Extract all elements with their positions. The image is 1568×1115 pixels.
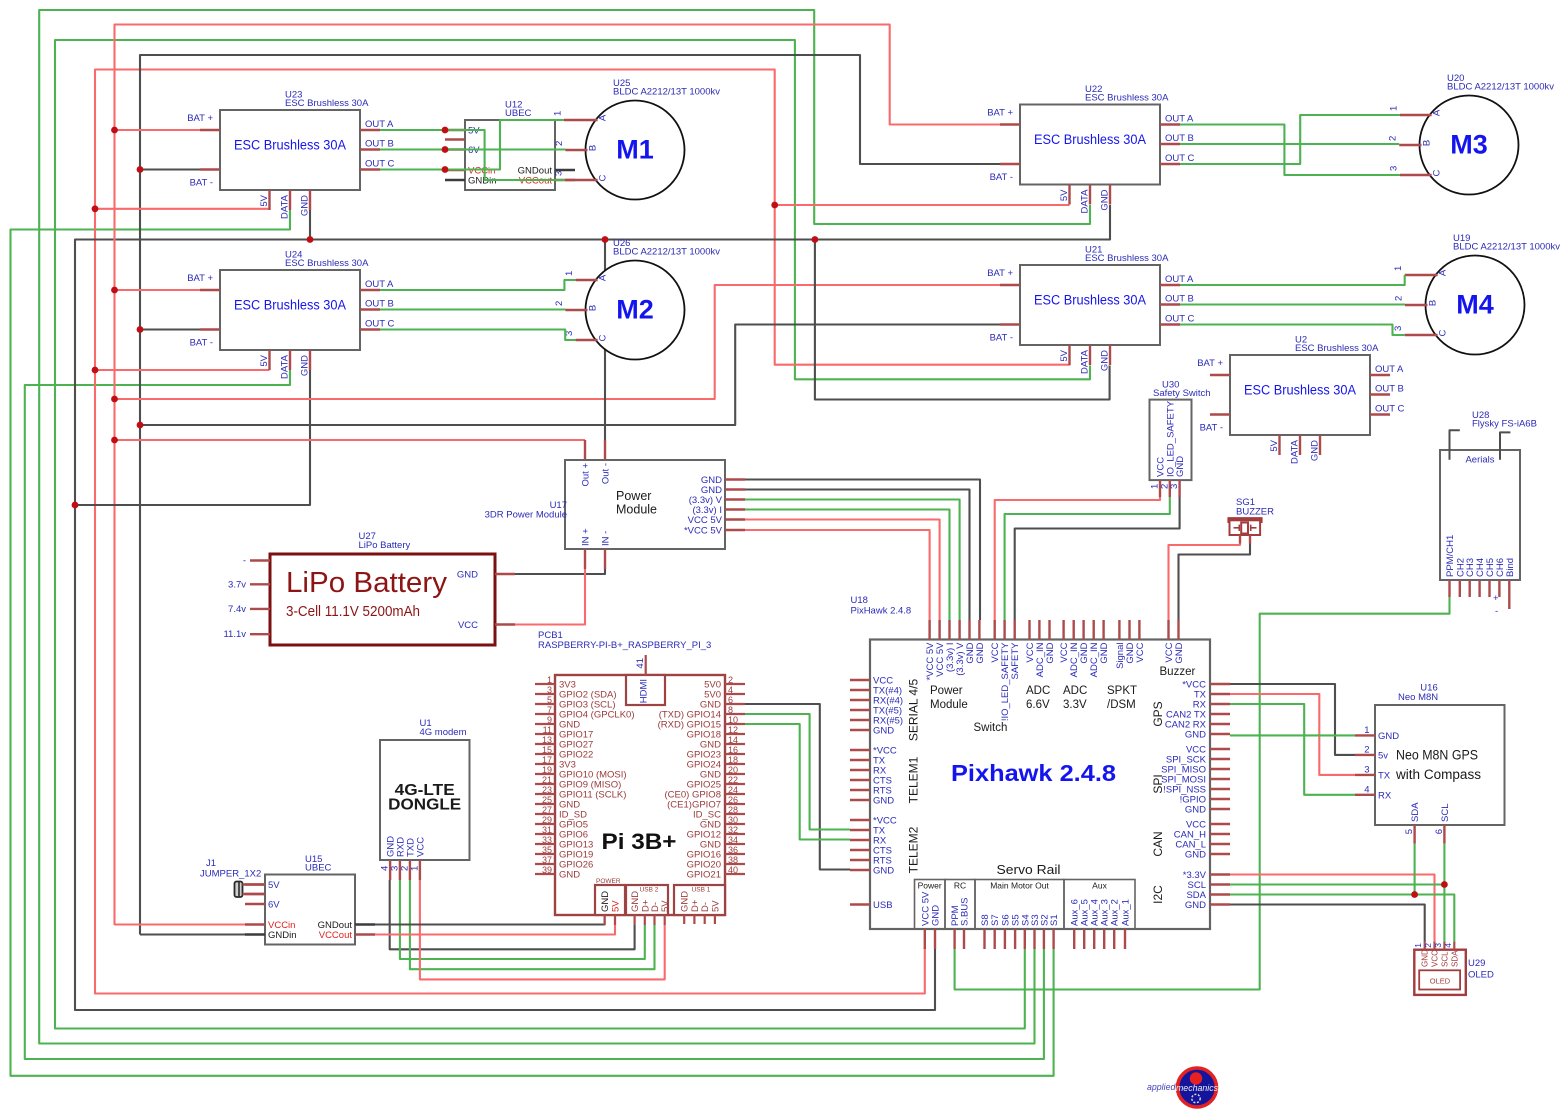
svg-text:BAT -: BAT - — [1200, 423, 1223, 434]
buzzer SG1 legs — [1239, 535, 1241, 544]
svg-text:5V: 5V — [1059, 349, 1070, 361]
U15 pin GNDin — [245, 933, 265, 935]
U18 servo rail pin S1 — [1052, 929, 1054, 949]
U18 top pin GND — [978, 620, 980, 640]
svg-text:SERIAL 4/5: SERIAL 4/5 — [907, 679, 921, 742]
U23 pin OUT B — [360, 148, 380, 150]
U18 top pin GND — [1082, 620, 1084, 640]
wire U27 VCC to U17 IN+ — [515, 569, 585, 625]
svg-text:A: A — [598, 274, 609, 281]
U18 SERIAL4/5 pin RX(#5) — [850, 719, 870, 721]
U2 pin OUT A — [1370, 374, 1390, 376]
U28 pin CH3 — [1468, 580, 1470, 597]
svg-text:1: 1 — [1413, 943, 1423, 948]
svg-text:23: 23 — [542, 785, 552, 795]
svg-text:ADC: ADC — [1063, 685, 1087, 697]
U15 pin VCCout — [355, 933, 375, 935]
junction U12 5V — [442, 127, 449, 134]
junction GND rail / Out- — [602, 236, 609, 243]
U18 SPI pin !GPIO — [1210, 798, 1230, 800]
wire U1 VCC to Pi USB2 5V — [420, 880, 665, 979]
U16 pin 6 (SCL) — [1443, 825, 1445, 844]
wire U1 TXD to Pi USB2 D- — [410, 880, 655, 969]
U22 pin OUT A — [1160, 123, 1180, 125]
U2 pin OUT C — [1370, 413, 1390, 415]
svg-text:OUT C: OUT C — [365, 159, 395, 170]
svg-text:OUT C: OUT C — [1375, 404, 1405, 415]
U28 aerial right — [1500, 432, 1510, 459]
U30 pin 1 (VCC) — [1159, 480, 1161, 497]
svg-text:5V: 5V — [259, 354, 270, 366]
U18 SERIAL4/5 pin TX(#5) — [850, 709, 870, 711]
U1 pin 4 (GND) — [389, 860, 391, 880]
svg-text:BUZZER: BUZZER — [1236, 507, 1274, 518]
PCB1 pin 9 (GND) — [535, 723, 555, 725]
U18 servo rail pin Aux_4 — [1093, 929, 1095, 949]
svg-text:GND: GND — [1100, 189, 1111, 210]
svg-text:GND: GND — [1378, 731, 1399, 742]
svg-text:+: + — [1493, 593, 1499, 604]
PCB1 pin 35 (GPIO19) — [535, 853, 555, 855]
U18 top pin ADC_IN — [1092, 620, 1094, 640]
svg-text:GND: GND — [1045, 642, 1056, 663]
J1 pin stubs — [243, 883, 266, 885]
svg-text:IN +: IN + — [581, 528, 592, 546]
svg-text:37: 37 — [542, 855, 552, 865]
svg-text:VCC 5V: VCC 5V — [688, 515, 723, 526]
svg-text:SCL: SCL — [1440, 804, 1451, 822]
PCB1 power connector — [595, 885, 625, 915]
U2 pin 5V — [1278, 435, 1280, 455]
U2 pin DATA — [1299, 435, 1301, 455]
svg-text:5V: 5V — [268, 880, 280, 891]
svg-text:15: 15 — [542, 745, 552, 755]
ESC U23 box — [220, 110, 360, 190]
wire U18 I2C SCL to OLED SCL / U16 SCL — [1230, 883, 1444, 885]
U28 pin CH4 — [1478, 580, 1480, 597]
svg-text:GND: GND — [873, 796, 894, 807]
U23 pin 5V — [268, 190, 270, 210]
UBEC U12 box — [465, 120, 555, 190]
power module U17 box — [565, 460, 725, 549]
U18 SERIAL4/5 pin RX(#4) — [850, 699, 870, 701]
raspberry pi PCB1 box — [555, 675, 725, 915]
U18 top pin VCC — [1167, 620, 1169, 640]
U18 TELEM1 pin RX — [850, 769, 870, 771]
junction BAT+ rail / Out+ — [111, 437, 118, 444]
junction U12 6V — [442, 146, 449, 153]
PCB1 pin 2 (5V0) — [725, 683, 745, 685]
motor U25 (M1) body — [586, 101, 685, 200]
PCB1 pin 30 (GND) — [725, 823, 745, 825]
svg-text:3: 3 — [547, 685, 552, 695]
U21 pin 5V — [1068, 345, 1070, 365]
U20 pin 3 (C) — [1400, 174, 1432, 176]
U18 servo rail pin GND — [934, 929, 936, 949]
svg-text:GND: GND — [300, 355, 311, 376]
wire Pixhawk SAFETY to U30 pin3 — [1015, 497, 1180, 620]
U20 pin 1 (A) — [1400, 114, 1432, 116]
svg-text:C: C — [1432, 169, 1443, 176]
U18 top pin GND — [1048, 620, 1050, 640]
svg-text:SAFETY: SAFETY — [1010, 642, 1021, 680]
PCB1 pin 15 (GPIO22) — [535, 753, 555, 755]
wire net +5V rail (red bus x=95) — [95, 70, 1070, 994]
PCB1 pin 33 (GPIO13) — [535, 843, 555, 845]
junction GND rail / U21 GND — [812, 236, 819, 243]
U15 pin VCCin — [245, 923, 265, 925]
wire U28 PPM/CH1 to Pixhawk PPM — [955, 597, 1450, 990]
U17 pin Out+ — [584, 440, 586, 460]
U1 pin 1 (VCC) — [419, 860, 421, 880]
PCB1 pin 20 (GND) — [725, 773, 745, 775]
wire U21 BAT- branch — [140, 325, 1000, 426]
U25 pin 1 (A) — [564, 119, 598, 121]
svg-text:B: B — [1428, 300, 1439, 306]
svg-text:Power: Power — [930, 685, 963, 697]
svg-text:2: 2 — [1388, 136, 1399, 141]
U29 pin 2 (VCC) — [1433, 942, 1435, 950]
svg-text:16: 16 — [728, 745, 738, 755]
wire U17 *VCC 5V to Pixhawk top col 929.6 — [745, 530, 930, 620]
svg-text:20: 20 — [728, 765, 738, 775]
svg-text:ESC Brushless 30A: ESC Brushless 30A — [1085, 93, 1169, 104]
wire U21 OUT A to M4 pin1 — [1180, 275, 1405, 285]
svg-text:28: 28 — [728, 805, 738, 815]
wire U16 SDA drop — [1414, 844, 1416, 895]
receiver U28 box — [1440, 450, 1520, 580]
svg-text:Aux: Aux — [1092, 881, 1107, 891]
svg-text:OUT C: OUT C — [365, 319, 395, 330]
svg-text:3: 3 — [1433, 943, 1443, 948]
wire U12 5V to M1 pin3 (VCCout row) — [445, 130, 565, 180]
svg-text:4G modem: 4G modem — [420, 727, 467, 738]
svg-text:SPI: SPI — [1151, 774, 1165, 793]
svg-text:BAT +: BAT + — [187, 273, 213, 284]
pixhawk U18 box — [870, 640, 1210, 930]
wire net GND rail (gray bus x=75 / y=239.5) — [75, 205, 1110, 1010]
svg-text:13: 13 — [542, 735, 552, 745]
svg-text:31: 31 — [542, 825, 552, 835]
U18 servo rail RC box — [945, 880, 975, 930]
PCB1 pin 10 ((RXD) GPIO15) — [725, 723, 745, 725]
ESC U2 box — [1230, 355, 1370, 435]
svg-text:6V: 6V — [268, 900, 280, 911]
svg-text:OUT C: OUT C — [1165, 314, 1195, 325]
junction BAT+ rail / U24 — [111, 287, 118, 294]
junction GND rail / U24 GND — [72, 502, 79, 509]
U18 servo rail pin S2 — [1043, 929, 1045, 949]
svg-text:GND: GND — [1421, 949, 1430, 967]
svg-text:*VCC 5V: *VCC 5V — [684, 526, 723, 537]
svg-text:39: 39 — [542, 865, 552, 875]
svg-text:RC: RC — [954, 881, 966, 891]
svg-text:OUT B: OUT B — [1165, 294, 1194, 305]
GPS U16 box — [1375, 705, 1505, 825]
PCB1 pin 1 (3V3) — [535, 683, 555, 685]
svg-text:GPIO21: GPIO21 — [687, 870, 721, 881]
wire U22 OUT C to M3 pin1 — [1180, 115, 1400, 164]
U18 servo rail pin S8 — [983, 929, 985, 949]
svg-text:DATA: DATA — [1080, 189, 1091, 214]
svg-text:1: 1 — [409, 866, 420, 871]
svg-text:18: 18 — [728, 755, 738, 765]
svg-text:2: 2 — [1394, 296, 1405, 301]
PCB1 pin 38 (GPIO20) — [725, 863, 745, 865]
wire BAT+ rail to U15 VCCin — [115, 923, 246, 925]
junction +5V rail / U22 5V — [771, 202, 778, 209]
wire U12 6V to M1 pin2 — [445, 148, 566, 150]
PCB1 power pin 5V — [614, 915, 616, 925]
svg-text:17: 17 — [542, 755, 552, 765]
svg-text:DONGLE: DONGLE — [388, 797, 461, 814]
svg-text:5V: 5V — [710, 900, 721, 912]
PCB1 pin 4 (5V0) — [725, 693, 745, 695]
U28 aerial left — [1450, 430, 1460, 460]
PCB1 pin 24 ((CE0) GPIO8) — [725, 793, 745, 795]
U24 pin GND — [309, 350, 311, 370]
svg-text:SDA: SDA — [1450, 950, 1459, 967]
U29 pin 1 (GND) — [1424, 942, 1426, 950]
U24 pin OUT B — [360, 308, 380, 310]
svg-text:2: 2 — [1423, 943, 1433, 948]
svg-text:3-Cell 11.1V 5200mAh: 3-Cell 11.1V 5200mAh — [286, 604, 420, 620]
U18 servo rail pin Aux_2 — [1113, 929, 1115, 949]
U18 servo rail pin S3 — [1033, 929, 1035, 949]
svg-text:U29: U29 — [1468, 958, 1485, 969]
svg-text:GND: GND — [1185, 730, 1206, 741]
U16 pin 1 (GND) — [1355, 734, 1375, 736]
U22 pin 5V — [1068, 185, 1070, 205]
svg-text:5V: 5V — [259, 194, 270, 206]
U28 pin CH5 — [1488, 580, 1490, 597]
svg-text:4: 4 — [1364, 784, 1369, 795]
svg-text:36: 36 — [728, 845, 738, 855]
U12 pin 6V — [445, 148, 465, 150]
wire net DATA-M4/S4 (green bus) — [55, 40, 1090, 1029]
svg-text:M1: M1 — [616, 135, 654, 165]
svg-text:41: 41 — [635, 658, 646, 669]
svg-text:DATA: DATA — [280, 194, 291, 219]
U21 pin OUT A — [1160, 284, 1180, 286]
svg-text:C: C — [1438, 329, 1449, 336]
svg-text:Neo M8N GPS: Neo M8N GPS — [1396, 748, 1478, 763]
svg-text:BAT -: BAT - — [190, 338, 213, 349]
U18 I2C pin GND — [1210, 903, 1230, 905]
svg-text:7: 7 — [547, 705, 552, 715]
svg-text:BAT +: BAT + — [987, 108, 1013, 119]
svg-text:OLED: OLED — [1430, 977, 1451, 986]
U16 pin 3 (TX) — [1355, 774, 1375, 776]
svg-text:ESC Brushless 30A: ESC Brushless 30A — [1034, 293, 1146, 308]
svg-text:21: 21 — [542, 775, 552, 785]
U18 top pin VCC — [1028, 620, 1030, 640]
U15 pin 6V — [245, 903, 265, 905]
svg-text:RX: RX — [1378, 790, 1392, 801]
wire Pixhawk VCC(safety) to U30 pin1 — [995, 497, 1160, 620]
svg-text:OUT A: OUT A — [365, 119, 394, 130]
wire U24 OUT A to M2 pin1 — [380, 280, 576, 290]
svg-text:U18: U18 — [851, 595, 868, 606]
svg-text:ADC: ADC — [1026, 685, 1050, 697]
svg-text:22: 22 — [728, 775, 738, 785]
svg-text:6: 6 — [1434, 829, 1445, 834]
U15 pin GNDout — [355, 923, 375, 925]
svg-text:OUT B: OUT B — [1165, 133, 1194, 144]
svg-text:3DR Power Module: 3DR Power Module — [485, 510, 567, 521]
U18 I2C pin SCL — [1210, 883, 1230, 885]
svg-text:-: - — [243, 556, 246, 567]
svg-text:ESC Brushless 30A: ESC Brushless 30A — [234, 298, 346, 313]
U16 pin 2 (5v) — [1355, 754, 1375, 756]
wire Pixhawk !IO_LED_SAFETY to U30 pin2 — [1005, 497, 1170, 620]
svg-text:TX: TX — [1378, 770, 1391, 781]
junction BAT+ rail / U23 — [111, 127, 118, 134]
svg-text:HDMI: HDMI — [639, 679, 650, 703]
svg-text:26: 26 — [728, 795, 738, 805]
wire U1 GND to Pi USB2 GND — [390, 880, 635, 949]
U24 pin 5V — [268, 350, 270, 370]
U12 pin GNDout — [555, 169, 575, 171]
svg-text:4: 4 — [728, 685, 733, 695]
U24 pin OUT C — [360, 328, 380, 330]
wire PCB1 pin8 TXD to Pixhawk TELEM2 TX — [745, 714, 850, 830]
ESC U21 box — [1020, 265, 1160, 345]
U29 pin 3 (SCL) — [1443, 942, 1445, 950]
svg-text:BLDC A2212/13T 1000kv: BLDC A2212/13T 1000kv — [613, 87, 720, 98]
wire net BAT+ rail (red bus x=114.5) — [115, 25, 1001, 926]
svg-text:LiPo Battery: LiPo Battery — [359, 540, 411, 551]
svg-text:OLED: OLED — [1468, 970, 1494, 981]
U17 pin GND — [725, 478, 745, 480]
wire U22 5V branch — [775, 204, 1070, 206]
svg-text:5: 5 — [547, 695, 552, 705]
wire U23 GND to GND rail — [309, 210, 311, 240]
PCB1 pin 34 (GND) — [725, 843, 745, 845]
PCB1 pin 27 (ID_SD) — [535, 813, 555, 815]
U29 pin 4 (SDA) — [1453, 942, 1455, 950]
svg-text:BLDC A2212/13T 1000kv: BLDC A2212/13T 1000kv — [613, 247, 720, 258]
svg-text:3: 3 — [1169, 484, 1180, 489]
U12 pin VCCout — [555, 179, 575, 181]
U23 pin OUT A — [360, 129, 380, 131]
PCB1 pin 22 (GPIO25) — [725, 783, 745, 785]
U2 pin GND — [1319, 435, 1321, 455]
svg-text:Safety Switch: Safety Switch — [1153, 388, 1211, 399]
U2 pin BAT+ — [1210, 374, 1230, 376]
U18 GPS pin GND — [1210, 733, 1230, 735]
PCB1 USB2 pin D+ — [644, 915, 646, 925]
ESC U22 box — [1020, 105, 1160, 185]
U1 pin 2 (TXD) — [409, 860, 411, 880]
U18 top pin ADC_IN — [1038, 620, 1040, 640]
U18 servo rail pin S.BUS — [963, 929, 965, 949]
PCB1 pin 12 (GPIO18) — [725, 733, 745, 735]
junction U12 VCCin — [442, 166, 449, 173]
svg-text:SCL: SCL — [1440, 951, 1449, 967]
svg-text:B: B — [588, 145, 599, 151]
U18 I2C pin *3.3V — [1210, 873, 1230, 875]
svg-text:GND: GND — [873, 866, 894, 877]
svg-text:GND: GND — [457, 570, 478, 581]
U18 top pin VCC 5V — [938, 620, 940, 640]
wire U21 OUT C to M4 pin3 — [1180, 325, 1405, 336]
PCB1 pin 37 (GPIO26) — [535, 863, 555, 865]
svg-text:GPS: GPS — [1151, 701, 1165, 726]
U19 pin 1 (A) — [1405, 274, 1438, 276]
svg-text:ESC Brushless 30A: ESC Brushless 30A — [285, 258, 369, 269]
wire U17 GND to Pixhawk top col 969.5 — [745, 490, 970, 621]
svg-text:38: 38 — [728, 855, 738, 865]
svg-text:OUT A: OUT A — [1165, 114, 1194, 125]
svg-text:with Compass: with Compass — [1395, 767, 1481, 782]
U26 pin 3 (C) — [576, 339, 598, 341]
svg-text:A: A — [1432, 109, 1443, 116]
svg-text:Power: Power — [616, 489, 651, 503]
U18 top pin *VCC 5V — [928, 620, 930, 640]
U18 top pin !IO_LED_SAFETY — [1003, 620, 1005, 640]
svg-text:GND: GND — [1185, 805, 1206, 816]
svg-text:10: 10 — [728, 715, 738, 725]
U18 TELEM2 pin RTS — [850, 859, 870, 861]
svg-text:VCC: VCC — [458, 620, 478, 631]
svg-text:GND: GND — [1100, 350, 1111, 371]
U18 servo rail pin Aux_1 — [1124, 929, 1126, 949]
LiPo battery U27 box — [270, 554, 495, 645]
U12 pin VCCin — [445, 169, 465, 171]
svg-text:5V: 5V — [1269, 439, 1280, 451]
U18 servo rail Aux box — [1064, 880, 1135, 930]
svg-text:USB 1: USB 1 — [692, 887, 711, 894]
svg-text:OUT A: OUT A — [1375, 364, 1404, 375]
svg-text:34: 34 — [728, 835, 738, 845]
U22 pin BAT- — [1000, 163, 1020, 165]
svg-text:C: C — [598, 334, 609, 341]
svg-text:BAT -: BAT - — [990, 172, 1013, 183]
PCB1 pin 28 (ID_SC) — [725, 813, 745, 815]
U24 pin DATA — [289, 350, 291, 370]
U21 pin BAT+ — [1000, 284, 1020, 286]
svg-text:applied: applied — [1147, 1082, 1176, 1092]
wire U24 GND to GND rail — [75, 370, 310, 505]
svg-text:Aux_1: Aux_1 — [1121, 899, 1132, 926]
wire U17 (3.3v) V to Pixhawk top col 959.6 — [745, 500, 960, 621]
svg-text:40: 40 — [728, 865, 738, 875]
svg-text:5v: 5v — [1378, 750, 1388, 761]
svg-text:25: 25 — [542, 795, 552, 805]
wire U17 GND to Pixhawk top col 980 — [745, 480, 980, 621]
U18 CAN pin GND — [1210, 853, 1230, 855]
U18 servo rail pin S5 — [1014, 929, 1016, 949]
U18 top pin VCC — [994, 620, 996, 640]
svg-text:1: 1 — [1393, 266, 1404, 271]
svg-text:S.BUS: S.BUS — [960, 897, 971, 926]
U24 pin BAT- — [200, 328, 220, 330]
U18 TELEM2 pin GND — [850, 869, 870, 871]
junction +5V rail / U24 — [92, 367, 99, 374]
wire U12 VCCin to M1 pin1 — [445, 120, 564, 170]
wire PCB1 pin6 GND to Pixhawk TELEM2 GND — [745, 704, 850, 870]
motor U19 (M4) body — [1426, 256, 1525, 355]
svg-text:B: B — [588, 305, 599, 311]
U17 pin Out- — [604, 440, 606, 460]
U21 pin BAT- — [1000, 323, 1020, 325]
U18 CAN pin VCC — [1210, 823, 1230, 825]
junction BAT- rail / U21 — [137, 422, 144, 429]
wire U27 GND to U17 IN- — [515, 569, 605, 574]
PCB1 USB2 pin 5V — [664, 915, 666, 925]
PCB1 pin 31 (GPIO6) — [535, 833, 555, 835]
